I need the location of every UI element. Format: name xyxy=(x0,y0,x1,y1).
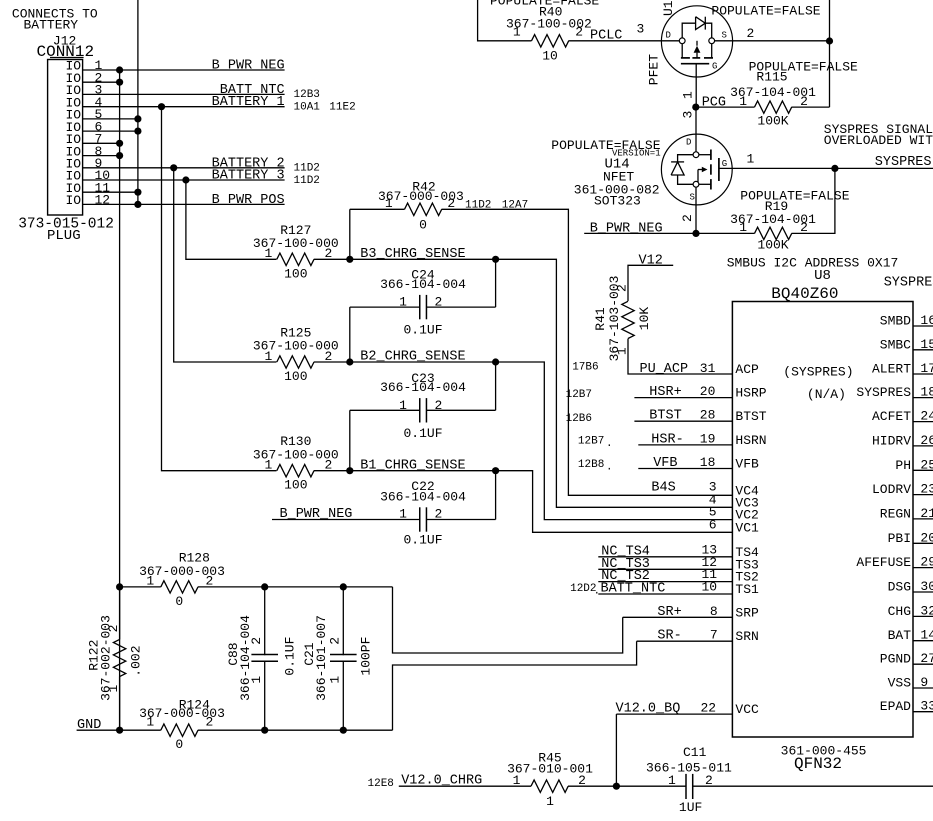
svg-text:17B6: 17B6 xyxy=(572,361,598,373)
svg-text:366-104-004: 366-104-004 xyxy=(380,380,466,395)
wire PCG down to U14 drain xyxy=(695,107,697,152)
svg-text:.: . xyxy=(594,586,601,598)
svg-text:LODRV: LODRV xyxy=(872,482,911,497)
svg-text:SMBC: SMBC xyxy=(880,337,911,352)
wire pin12 B_PWR_POS stub xyxy=(83,203,285,205)
node B1_CHRG_SENSE junction xyxy=(346,467,353,474)
svg-text:SYSPRES: SYSPRES xyxy=(875,155,932,170)
svg-text:100: 100 xyxy=(284,478,307,493)
svg-text:6: 6 xyxy=(709,517,717,532)
svg-text:1: 1 xyxy=(681,91,696,99)
wire B3 junction up to R42 xyxy=(349,209,351,259)
svg-text:366-101-007: 366-101-007 xyxy=(314,615,329,701)
svg-text:31: 31 xyxy=(700,361,716,376)
svg-text:11D2: 11D2 xyxy=(294,163,320,175)
svg-text:366-104-004: 366-104-004 xyxy=(238,615,253,701)
svg-text:B4S: B4S xyxy=(651,480,675,495)
wire R19 pin2 up to SYSPRES xyxy=(792,168,835,233)
U14 drain terminal circle xyxy=(693,152,699,158)
node R115 top junction xyxy=(826,37,833,44)
svg-text:8: 8 xyxy=(710,604,718,619)
node B3_CHRG_SENSE junction xyxy=(346,256,353,263)
wire B2_CHRG_SENSE to VC2 xyxy=(350,362,733,520)
svg-text:32: 32 xyxy=(920,603,933,618)
svg-text:1: 1 xyxy=(513,773,521,788)
svg-text:1: 1 xyxy=(385,196,393,211)
wire PCG to R115 and R115 to junction xyxy=(696,106,755,108)
svg-text:11D2: 11D2 xyxy=(294,175,320,187)
node B2 cap junction xyxy=(492,358,499,365)
transistor U14 NFET body circle xyxy=(661,134,732,205)
svg-text:REGN: REGN xyxy=(880,506,911,521)
U14 body diode xyxy=(678,155,694,162)
svg-text:16: 16 xyxy=(920,313,933,328)
svg-text:SOT323: SOT323 xyxy=(594,194,641,209)
svg-text:1: 1 xyxy=(265,458,273,473)
svg-text:10: 10 xyxy=(702,580,718,595)
junction dots top rail xyxy=(116,583,123,590)
svg-text:SRP: SRP xyxy=(735,605,759,620)
svg-text:12: 12 xyxy=(95,193,111,208)
svg-text:24: 24 xyxy=(920,409,933,424)
svg-text:2: 2 xyxy=(328,637,343,645)
svg-text:28: 28 xyxy=(700,408,716,423)
svg-text:HIDRV: HIDRV xyxy=(872,433,911,448)
node BATTERY_2 junction xyxy=(170,164,177,171)
svg-text:SMBUS I2C ADDRESS 0X17: SMBUS I2C ADDRESS 0X17 xyxy=(727,255,899,270)
svg-text:VSS: VSS xyxy=(888,676,912,691)
svg-text:ACP: ACP xyxy=(735,362,759,377)
svg-text:POPULATE=FALSE: POPULATE=FALSE xyxy=(711,4,820,19)
svg-text:OVERLOADED WITH: OVERLOADED WITH xyxy=(824,133,933,148)
U13 source terminal circle xyxy=(709,38,715,44)
U13 drain terminal circle xyxy=(679,38,685,44)
svg-text:2: 2 xyxy=(106,625,121,633)
svg-text:IO: IO xyxy=(66,193,82,208)
wire C21 leads xyxy=(342,587,344,655)
U13 channel bar xyxy=(681,57,690,59)
svg-text:BQ40Z60: BQ40Z60 xyxy=(771,285,838,303)
svg-text:AFEFUSE: AFEFUSE xyxy=(856,555,911,570)
wire R41 to ACP pin xyxy=(628,339,732,374)
wire bottom rail GND xyxy=(77,729,161,731)
wire V12 stub xyxy=(628,265,673,301)
wire R130 pin2 to junction xyxy=(314,470,350,472)
wire V12.0_CHRG to R45 xyxy=(399,785,531,787)
svg-text:0: 0 xyxy=(175,594,183,609)
wire pin1 B_PWR_NEG stub xyxy=(83,69,285,71)
svg-text:3: 3 xyxy=(637,22,645,37)
wire R125 pin2 to junction xyxy=(314,361,350,363)
svg-text:BATTERY: BATTERY xyxy=(24,17,79,32)
svg-text:D: D xyxy=(686,138,691,148)
svg-text:HSRN: HSRN xyxy=(735,433,766,448)
svg-text:(N/A): (N/A) xyxy=(807,387,846,402)
svg-text:15: 15 xyxy=(920,337,933,352)
svg-text:D: D xyxy=(666,31,671,41)
wire R127 pin2 to junction xyxy=(314,258,350,260)
svg-text:10: 10 xyxy=(542,49,558,64)
svg-text:100K: 100K xyxy=(757,114,788,129)
wire R42 row / net B4S to VC4 xyxy=(350,208,405,210)
wire pin2 stub xyxy=(83,81,120,83)
wire C23 pin2 to B2 line xyxy=(426,409,495,411)
wire C22 pin2 to B1 line xyxy=(426,519,495,521)
svg-text:0.1UF: 0.1UF xyxy=(283,637,298,676)
svg-text:PGND: PGND xyxy=(880,652,911,667)
U14 channel legs xyxy=(699,154,711,156)
svg-text:12B7: 12B7 xyxy=(566,389,592,401)
svg-text:PU_ACP: PU_ACP xyxy=(640,362,689,377)
wire B_PWR_NEG row to R19 xyxy=(584,232,754,234)
svg-text:33: 33 xyxy=(920,699,933,714)
wire C24 pin1 to B2 line xyxy=(350,306,420,308)
svg-text:21: 21 xyxy=(920,506,933,521)
svg-text:.002: .002 xyxy=(128,645,143,676)
svg-text:20: 20 xyxy=(700,384,716,399)
U13 gate bar xyxy=(681,63,709,65)
svg-text:BTST: BTST xyxy=(735,409,766,424)
svg-text:(SYSPRES): (SYSPRES) xyxy=(783,364,853,379)
svg-text:ALERT: ALERT xyxy=(872,362,911,377)
wire feed from top edge to R40 xyxy=(478,0,532,41)
wire R40 to PFET drain xyxy=(569,40,680,42)
svg-text:1: 1 xyxy=(146,715,154,730)
svg-text:7: 7 xyxy=(710,628,718,643)
svg-text:QFN32: QFN32 xyxy=(794,755,842,773)
node PCG junction xyxy=(692,104,699,111)
svg-text:12B6: 12B6 xyxy=(566,413,592,425)
svg-text:12B7: 12B7 xyxy=(578,436,604,448)
node B3 cap junction xyxy=(492,256,499,263)
svg-text:2: 2 xyxy=(747,26,755,41)
wire B_PWR_POS vertical rail to top edge xyxy=(137,0,139,204)
svg-text:U13: U13 xyxy=(661,0,676,16)
wire R122 leads on B_PWR_NEG rail xyxy=(119,587,121,640)
U13 body diode xyxy=(682,23,695,38)
svg-text:11E2: 11E2 xyxy=(329,102,355,114)
svg-text:22: 22 xyxy=(701,701,717,716)
svg-text:18: 18 xyxy=(700,455,716,470)
svg-text:BAT: BAT xyxy=(888,628,912,643)
svg-text:1: 1 xyxy=(615,347,630,355)
svg-text:2: 2 xyxy=(575,24,583,39)
junction dots on connector rails xyxy=(116,66,123,73)
svg-text:PH: PH xyxy=(895,458,911,473)
svg-text:0.1UF: 0.1UF xyxy=(403,533,442,548)
wire BATTERY_3 branch down to R127 xyxy=(186,180,277,259)
wire R45 to C11 junction xyxy=(568,785,616,787)
svg-text:1: 1 xyxy=(106,685,121,693)
svg-text:2: 2 xyxy=(447,196,455,211)
svg-text:10K: 10K xyxy=(637,307,652,331)
wire B3_CHRG_SENSE to VC3 xyxy=(350,259,733,507)
svg-text:0.1UF: 0.1UF xyxy=(403,323,442,338)
svg-text:9: 9 xyxy=(920,675,928,690)
svg-text:SYSPRES: SYSPRES xyxy=(884,275,933,290)
svg-text:.: . xyxy=(606,462,613,474)
svg-text:C11: C11 xyxy=(683,745,707,760)
svg-text:100PF: 100PF xyxy=(358,637,373,676)
wire pin11 stub xyxy=(83,191,138,193)
svg-text:2: 2 xyxy=(249,637,264,645)
svg-text:G: G xyxy=(712,62,717,72)
svg-text:12B8: 12B8 xyxy=(578,459,604,471)
svg-text:0.1UF: 0.1UF xyxy=(403,426,442,441)
svg-text:2: 2 xyxy=(206,715,214,730)
svg-text:VFB: VFB xyxy=(735,457,759,472)
svg-text:B_PWR_POS: B_PWR_POS xyxy=(212,193,285,208)
svg-text:V12: V12 xyxy=(639,254,663,269)
svg-text:TS1: TS1 xyxy=(735,582,759,597)
svg-text:12B3: 12B3 xyxy=(294,89,320,101)
wire U13 gate down to PCG xyxy=(695,64,697,107)
node B2_CHRG_SENSE junction xyxy=(346,358,353,365)
wire B_PWR_NEG vertical rail xyxy=(119,70,121,730)
node BATTERY_1 junction xyxy=(158,103,165,110)
wire pin9 BATTERY_2 stub xyxy=(83,167,285,169)
svg-text:12E8: 12E8 xyxy=(368,778,394,790)
svg-text:3: 3 xyxy=(681,111,696,119)
wire pin7 stub xyxy=(83,142,120,144)
node SYSPRES junction xyxy=(831,165,838,172)
svg-text:100: 100 xyxy=(284,266,307,281)
svg-text:0: 0 xyxy=(419,217,427,232)
U14 source terminal circle xyxy=(693,181,699,187)
wire pin4 BATTERY_1 stub xyxy=(83,106,285,108)
wire C23 pin1 to B1 line xyxy=(350,409,420,411)
svg-text:VC1: VC1 xyxy=(735,520,759,535)
U14 gate bar xyxy=(718,158,720,181)
svg-text:G: G xyxy=(722,159,727,169)
svg-text:0: 0 xyxy=(175,737,183,752)
svg-text:1: 1 xyxy=(265,246,273,261)
svg-text:14: 14 xyxy=(920,628,933,643)
wire vertical from top edge through R115 xyxy=(829,0,831,107)
svg-text:R115: R115 xyxy=(756,70,787,85)
svg-text:366-105-011: 366-105-011 xyxy=(646,760,732,775)
svg-text:20: 20 xyxy=(920,530,933,545)
transistor U13 PFET body circle xyxy=(661,6,732,77)
wire SR- run to SRN xyxy=(393,641,637,730)
svg-text:BATTERY_3: BATTERY_3 xyxy=(212,169,285,184)
wire pin6 stub xyxy=(83,130,138,132)
U14 channel bar xyxy=(710,150,712,160)
svg-text:PBI: PBI xyxy=(888,531,911,546)
svg-text:366-104-004: 366-104-004 xyxy=(380,277,466,292)
svg-text:S: S xyxy=(690,193,695,203)
svg-text:100: 100 xyxy=(284,369,307,384)
svg-text:1: 1 xyxy=(328,676,343,684)
wire SR+ run to SRP xyxy=(393,587,623,653)
node BATTERY_3 junction xyxy=(182,176,189,183)
svg-text:EPAD: EPAD xyxy=(880,699,911,714)
svg-text:1UF: 1UF xyxy=(679,800,702,815)
svg-text:SRN: SRN xyxy=(735,629,758,644)
svg-text:27: 27 xyxy=(920,651,933,666)
svg-text:23: 23 xyxy=(920,482,933,497)
svg-text:366-104-004: 366-104-004 xyxy=(380,489,466,504)
svg-text:ACFET: ACFET xyxy=(872,409,911,424)
svg-text:S: S xyxy=(722,31,727,41)
svg-text:PFET: PFET xyxy=(647,54,662,85)
wire B1_CHRG_SENSE to VC1 xyxy=(350,471,733,533)
wire U14 source down to B_PWR_NEG xyxy=(695,187,697,233)
wire BATTERY_1 branch down to R130 xyxy=(162,107,277,471)
svg-text:1: 1 xyxy=(668,773,676,788)
node B1 cap junction xyxy=(492,467,499,474)
svg-text:HSRP: HSRP xyxy=(735,386,766,401)
wire BATTERY_2 branch down to R125 xyxy=(174,168,277,362)
svg-text:18: 18 xyxy=(920,385,933,400)
svg-text:1: 1 xyxy=(265,349,273,364)
svg-text:2: 2 xyxy=(615,284,630,292)
svg-text:1: 1 xyxy=(739,220,747,235)
wire VCC riser to V12.0_CHRG xyxy=(615,714,617,786)
svg-text:2: 2 xyxy=(680,214,695,222)
svg-text:17: 17 xyxy=(920,361,933,376)
wire U14 gate to SYSPRES net xyxy=(719,167,933,169)
svg-text:10A1: 10A1 xyxy=(294,102,321,114)
svg-text:SYSPRES: SYSPRES xyxy=(856,385,911,400)
wire pin5 stub xyxy=(83,118,138,120)
wire C11 pin2 to right edge xyxy=(693,785,933,787)
svg-text:25: 25 xyxy=(920,457,933,472)
IC U8 BQ40Z60 box xyxy=(732,302,913,738)
svg-text:CHG: CHG xyxy=(888,604,911,619)
svg-text:B_PWR_NEG: B_PWR_NEG xyxy=(212,59,285,74)
svg-text:1: 1 xyxy=(747,152,755,167)
connector J12 body xyxy=(48,60,83,216)
svg-text:BATTERY_1: BATTERY_1 xyxy=(212,95,285,110)
svg-text:U8: U8 xyxy=(814,268,831,284)
svg-text:1: 1 xyxy=(249,676,264,684)
wire C88 leads xyxy=(264,587,266,655)
wire top rail SRP sense xyxy=(120,586,161,588)
svg-text:PCLC: PCLC xyxy=(590,29,622,44)
junction dots bottom rail xyxy=(116,727,123,734)
svg-text:29: 29 xyxy=(920,555,933,570)
svg-text:PCG: PCG xyxy=(702,96,726,111)
wire pin3 BATT_NTC stub xyxy=(83,93,285,95)
svg-text:26: 26 xyxy=(920,433,933,448)
node B_PWR_NEG junction at U14 xyxy=(692,230,699,237)
svg-text:PLUG: PLUG xyxy=(47,228,81,244)
svg-text:.: . xyxy=(606,438,613,450)
wire junction to C11 xyxy=(616,785,686,787)
svg-text:B_PWR_NEG: B_PWR_NEG xyxy=(590,222,663,237)
svg-text:1: 1 xyxy=(513,24,521,39)
svg-text:1: 1 xyxy=(546,794,554,809)
svg-text:30: 30 xyxy=(920,579,933,594)
svg-text:19: 19 xyxy=(700,431,716,446)
node V12.0_BQ junction xyxy=(613,783,620,790)
svg-text:POPULATE=FALSE: POPULATE=FALSE xyxy=(740,189,849,204)
svg-text:DSG: DSG xyxy=(888,580,911,595)
wire pin8 stub xyxy=(83,155,120,157)
svg-text:100K: 100K xyxy=(757,237,788,252)
wire pin10 BATTERY_3 stub xyxy=(83,179,285,181)
U13 channel legs xyxy=(681,44,683,58)
wire U13 source to R115 junction xyxy=(715,40,830,42)
connector J12 value underline xyxy=(50,57,84,59)
wire C24 pin2 to B3 line xyxy=(426,306,495,308)
svg-text:VCC: VCC xyxy=(735,702,759,717)
wire B_PWR_NEG stub to C22 pin1 xyxy=(272,519,420,521)
svg-text:SMBD: SMBD xyxy=(880,314,911,329)
